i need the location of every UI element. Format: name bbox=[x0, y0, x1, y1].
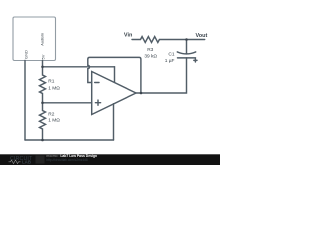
wire op-amp V- stub bbox=[113, 104, 115, 140]
wire 5V pin down bbox=[42, 61, 44, 67]
watermark divider block bbox=[36, 155, 45, 163]
wire 5V rail to op-amp bbox=[43, 66, 115, 68]
capacitor C1 polarity plus bbox=[194, 59, 197, 62]
watermark bar bbox=[0, 154, 220, 165]
svg-text:R1: R1 bbox=[48, 79, 54, 85]
svg-text:1 MΩ: 1 MΩ bbox=[48, 85, 60, 91]
svg-text:5V: 5V bbox=[41, 54, 46, 59]
svg-text:Vin: Vin bbox=[124, 33, 133, 39]
svg-text:39 kΩ: 39 kΩ bbox=[144, 53, 157, 59]
capacitor C1 top curved plate bbox=[177, 52, 195, 54]
svg-text:R3: R3 bbox=[147, 47, 153, 53]
resistor R2 bbox=[40, 103, 46, 140]
resistor R3 bbox=[132, 37, 205, 43]
junction R1-R2 divider node bbox=[41, 102, 44, 105]
op-amp plus sign bbox=[95, 100, 100, 105]
svg-text:LAB: LAB bbox=[22, 159, 31, 164]
junction Vout node bbox=[185, 38, 188, 41]
op-amp U1 bbox=[92, 72, 136, 115]
svg-text:1 MΩ: 1 MΩ bbox=[48, 117, 60, 123]
wire GND pin down bbox=[24, 61, 26, 141]
wire op-amp V+ stub bbox=[114, 67, 116, 83]
capacitor C1 bottom plate bbox=[178, 57, 196, 59]
wire noninverting input bbox=[43, 102, 92, 104]
resistor R1 bbox=[40, 67, 46, 103]
junction op-amp output node bbox=[140, 92, 143, 95]
junction 5V node bbox=[41, 66, 44, 69]
op-amp minus sign bbox=[95, 82, 99, 84]
CircuitLab logo resistor zigzag bbox=[9, 160, 21, 164]
svg-text:C1: C1 bbox=[168, 51, 174, 57]
svg-text:AudioIn: AudioIn bbox=[40, 33, 44, 46]
svg-text:Vout: Vout bbox=[196, 33, 208, 39]
wire feedback loop with hop bbox=[88, 57, 141, 93]
device U2 AudioIn box bbox=[13, 17, 56, 61]
wire bottom ground rail bbox=[25, 139, 114, 141]
svg-text:R2: R2 bbox=[48, 112, 54, 118]
svg-text:GND: GND bbox=[23, 50, 28, 59]
svg-text:1 µF: 1 µF bbox=[165, 58, 175, 64]
wire op-amp output bbox=[136, 58, 187, 93]
svg-text:http://circuitlab.com/c2mz4d8: http://circuitlab.com/c2mz4d8 bbox=[46, 158, 88, 162]
junction ground rail node bbox=[41, 139, 44, 142]
wire Vout node down to C1 bbox=[186, 40, 188, 54]
